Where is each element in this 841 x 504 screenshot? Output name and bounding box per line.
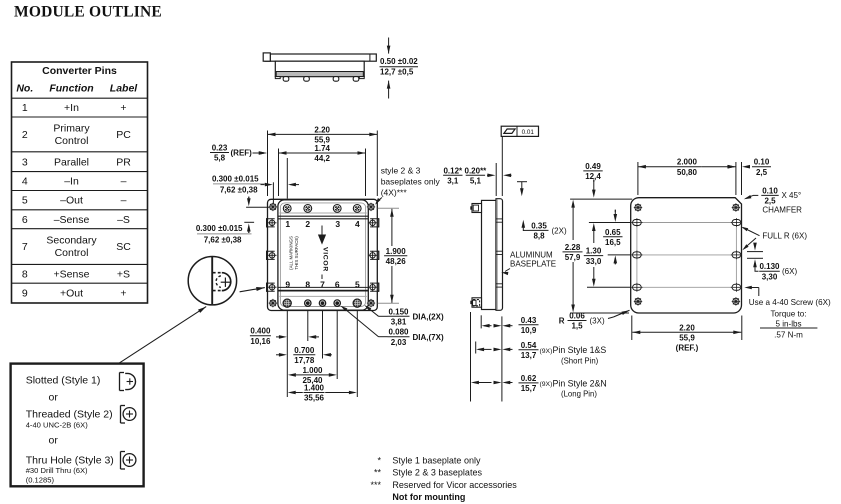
svg-text:44,2: 44,2 [314, 154, 330, 163]
svg-text:0.43: 0.43 [521, 316, 537, 325]
svg-text:1.900: 1.900 [386, 247, 407, 256]
svg-text:Parallel: Parallel [54, 156, 89, 168]
svg-text:1.30: 1.30 [586, 247, 602, 256]
svg-text:(Short Pin): (Short Pin) [561, 357, 599, 366]
svg-text:0.300 ±0.015: 0.300 ±0.015 [196, 224, 243, 233]
svg-text:THIS SURFACE): THIS SURFACE) [294, 236, 299, 270]
svg-text:1,5: 1,5 [571, 322, 583, 331]
svg-text:**: ** [374, 468, 382, 478]
svg-text:0.20**: 0.20** [465, 166, 488, 175]
svg-text:1.74: 1.74 [314, 144, 330, 153]
svg-text:1.000: 1.000 [302, 366, 323, 375]
svg-text:Label: Label [110, 83, 139, 95]
svg-text:(4X)***: (4X)*** [381, 188, 408, 198]
svg-text:Slotted (Style 1): Slotted (Style 1) [26, 374, 101, 386]
svg-text:5: 5 [22, 195, 28, 207]
svg-text:7: 7 [22, 241, 28, 253]
svg-text:10,16: 10,16 [250, 337, 271, 346]
svg-text:5,1: 5,1 [470, 177, 482, 186]
svg-text:0.150: 0.150 [388, 307, 409, 316]
svg-text:Control: Control [55, 247, 89, 259]
svg-text:1.400: 1.400 [304, 384, 325, 393]
svg-text:Style 2 & 3 baseplates: Style 2 & 3 baseplates [392, 468, 482, 478]
svg-text:–Sense: –Sense [54, 214, 90, 226]
svg-text:9: 9 [285, 279, 290, 289]
svg-text:3,1: 3,1 [447, 177, 459, 186]
svg-text:0.130: 0.130 [759, 262, 780, 271]
svg-text:2.000: 2.000 [677, 158, 698, 167]
svg-text:1: 1 [285, 219, 290, 229]
svg-text:(ALL MARKINGS: (ALL MARKINGS [289, 236, 294, 270]
svg-text:Thru Hole (Style 3): Thru Hole (Style 3) [26, 454, 114, 466]
svg-text:–: – [121, 176, 127, 188]
svg-text:0.54: 0.54 [521, 341, 537, 350]
svg-text:0.10: 0.10 [762, 186, 778, 195]
svg-text:2.20: 2.20 [679, 323, 695, 332]
svg-text:0.400: 0.400 [250, 327, 271, 336]
svg-text:8,8: 8,8 [533, 232, 545, 241]
svg-text:Function: Function [49, 83, 93, 95]
svg-text:FULL R (6X): FULL R (6X) [762, 232, 807, 241]
svg-text:0.50 ±0.02: 0.50 ±0.02 [380, 57, 418, 66]
svg-text:3,30: 3,30 [762, 272, 778, 281]
svg-text:7,62 ±0,38: 7,62 ±0,38 [204, 235, 242, 244]
svg-text:0.10: 0.10 [754, 158, 770, 167]
svg-text:Control: Control [55, 135, 89, 147]
svg-text:17,78: 17,78 [294, 356, 315, 365]
svg-text:35,56: 35,56 [304, 394, 325, 403]
svg-text:5: 5 [355, 279, 360, 289]
svg-text:5 in-lbs: 5 in-lbs [775, 319, 801, 328]
svg-text:ALUMINUM: ALUMINUM [510, 250, 553, 259]
svg-text:style 2 & 3: style 2 & 3 [381, 166, 421, 176]
svg-text:4-40 UNC-2B (6X): 4-40 UNC-2B (6X) [26, 420, 89, 429]
svg-text:0.12*: 0.12* [443, 166, 463, 175]
svg-text:+: + [120, 288, 126, 300]
svg-text:0.65: 0.65 [605, 228, 621, 237]
svg-text:SC: SC [116, 241, 131, 253]
svg-text:+In: +In [64, 102, 79, 114]
svg-text:–Out: –Out [60, 195, 83, 207]
svg-text:0.700: 0.700 [294, 346, 315, 355]
svg-text:1: 1 [22, 102, 28, 114]
svg-text:0.62: 0.62 [521, 374, 537, 383]
svg-text:#30 Drill Thru (6X): #30 Drill Thru (6X) [26, 466, 88, 475]
svg-text:(Long Pin): (Long Pin) [561, 390, 597, 399]
svg-text:7: 7 [320, 279, 325, 289]
svg-text:VICOR: VICOR [322, 247, 329, 272]
svg-text:+Out: +Out [60, 288, 83, 300]
svg-text:48,26: 48,26 [386, 257, 407, 266]
svg-text:2,5: 2,5 [756, 168, 768, 177]
svg-text:6: 6 [22, 214, 28, 226]
svg-text:–In: –In [64, 176, 79, 188]
svg-text:Primary: Primary [53, 122, 90, 134]
svg-text:3: 3 [22, 156, 28, 168]
svg-text:13,7: 13,7 [521, 351, 537, 360]
svg-text:X 45°: X 45° [782, 191, 802, 200]
svg-text:Torque to:: Torque to: [771, 310, 807, 319]
svg-text:Threaded (Style 2): Threaded (Style 2) [26, 408, 113, 420]
svg-text:16,5: 16,5 [605, 238, 621, 247]
svg-text:DIA,(7X): DIA,(7X) [413, 333, 444, 342]
svg-text:+Sense: +Sense [54, 268, 90, 280]
svg-text:+S: +S [117, 268, 130, 280]
svg-text:DIA,(2X): DIA,(2X) [413, 313, 444, 322]
svg-text:.57 N-m: .57 N-m [774, 330, 803, 339]
svg-text:MODULE OUTLINE: MODULE OUTLINE [14, 4, 162, 21]
svg-text:0.080: 0.080 [388, 328, 409, 337]
svg-text:Pin Style 2&N: Pin Style 2&N [553, 378, 607, 388]
svg-text:8: 8 [305, 279, 310, 289]
svg-text:BASEPLATE: BASEPLATE [510, 259, 556, 268]
svg-text:***: *** [370, 480, 381, 490]
svg-text:4: 4 [22, 176, 28, 188]
svg-text:CHAMFER: CHAMFER [762, 206, 802, 215]
svg-text:PR: PR [116, 156, 131, 168]
svg-text:baseplates only: baseplates only [381, 177, 441, 187]
svg-text:(REF.): (REF.) [676, 344, 699, 353]
svg-text:33,0: 33,0 [586, 257, 602, 266]
svg-text:50,80: 50,80 [677, 168, 698, 177]
svg-text:*: * [377, 455, 381, 465]
svg-text:2: 2 [22, 129, 28, 141]
svg-text:Pin Style 1&S: Pin Style 1&S [553, 345, 607, 355]
svg-text:(0.1285): (0.1285) [26, 476, 55, 485]
svg-text:2.20: 2.20 [314, 125, 330, 134]
svg-text:3,81: 3,81 [391, 318, 407, 327]
svg-text:Use a 4-40 Screw (6X): Use a 4-40 Screw (6X) [749, 298, 831, 307]
svg-text:0.01: 0.01 [522, 129, 535, 136]
svg-text:(3X): (3X) [590, 316, 605, 325]
svg-text:57,9: 57,9 [565, 253, 581, 262]
svg-text:Not for mounting: Not for mounting [392, 492, 465, 502]
svg-text:No.: No. [16, 83, 33, 95]
svg-text:12,4: 12,4 [585, 172, 601, 181]
svg-text:2: 2 [305, 219, 310, 229]
svg-text:2.28: 2.28 [565, 243, 581, 252]
svg-text:12,7 ±0,5: 12,7 ±0,5 [380, 68, 414, 77]
svg-text:5,8: 5,8 [214, 154, 226, 163]
svg-text:15,7: 15,7 [521, 384, 537, 393]
svg-text:or: or [49, 434, 59, 446]
svg-text:0.49: 0.49 [585, 162, 601, 171]
svg-text:3: 3 [335, 219, 340, 229]
svg-text:Secondary: Secondary [46, 235, 97, 247]
svg-text:PC: PC [116, 129, 131, 141]
svg-text:9: 9 [22, 288, 28, 300]
svg-text:55,9: 55,9 [679, 334, 695, 343]
svg-text:R: R [559, 316, 565, 325]
svg-text:(REF): (REF) [231, 149, 253, 158]
svg-text:or: or [49, 391, 59, 403]
svg-text:0.35: 0.35 [531, 221, 547, 230]
svg-text:(9X): (9X) [540, 381, 553, 388]
svg-text:0.23: 0.23 [212, 144, 228, 153]
svg-text:Converter Pins: Converter Pins [42, 65, 117, 77]
svg-text:+: + [120, 102, 126, 114]
svg-text:(9X): (9X) [540, 348, 553, 355]
svg-text:7,62 ±0,38: 7,62 ±0,38 [220, 185, 258, 194]
svg-text:4: 4 [355, 219, 360, 229]
svg-text:(6X): (6X) [782, 267, 797, 276]
svg-text:–S: –S [117, 214, 130, 226]
svg-text:0.300 ±0.015: 0.300 ±0.015 [212, 175, 259, 184]
svg-text:6: 6 [335, 279, 340, 289]
svg-text:2,03: 2,03 [391, 338, 407, 347]
svg-text:8: 8 [22, 268, 28, 280]
svg-text:(2X): (2X) [552, 226, 567, 235]
svg-text:10,9: 10,9 [521, 326, 537, 335]
svg-text:Reserved for Vicor accessories: Reserved for Vicor accessories [392, 480, 517, 490]
svg-text:Style 1 baseplate only: Style 1 baseplate only [392, 455, 481, 465]
svg-text:–: – [121, 195, 127, 207]
svg-text:2,5: 2,5 [764, 197, 776, 206]
